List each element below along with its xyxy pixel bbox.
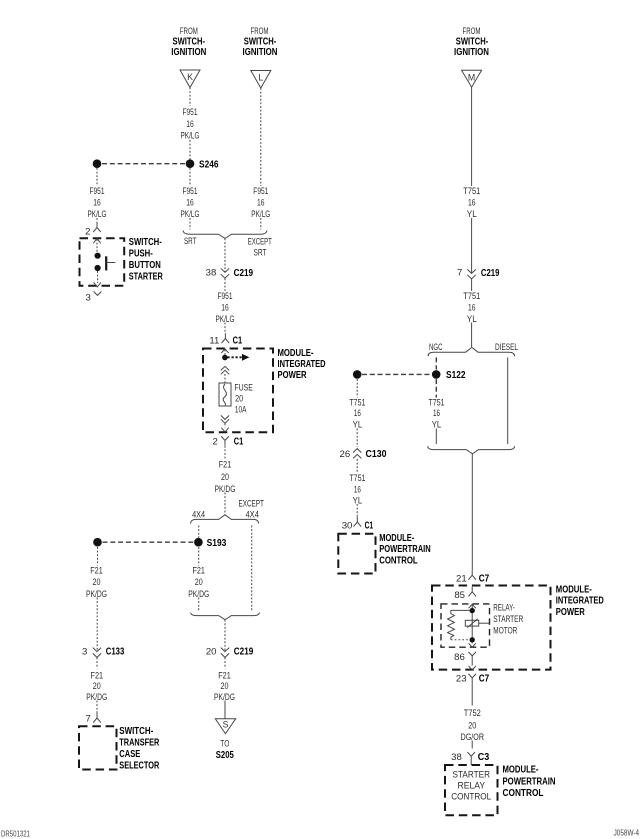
svg-text:POWER: POWER (556, 607, 585, 618)
wire from L (260, 88, 262, 186)
svg-text:2: 2 (212, 436, 217, 447)
node fuse feed (222, 355, 228, 361)
wire S122 branch horizontal (362, 373, 431, 375)
svg-text:85: 85 (454, 590, 465, 601)
wire below C7 pin 23 (471, 683, 473, 705)
wire NGC to merge (435, 429, 437, 445)
svg-text:F951: F951 (253, 186, 268, 197)
svg-text:SELECTOR: SELECTOR (119, 761, 159, 772)
wire to merge (198, 598, 200, 612)
svg-text:DIESEL: DIESEL (495, 342, 518, 353)
wire to NGC/DIESEL split (471, 323, 473, 348)
svg-text:16: 16 (468, 303, 476, 314)
wire S193 branch horizontal (103, 541, 194, 543)
relay contact diagonal (467, 619, 477, 628)
svg-text:23: 23 (456, 674, 467, 685)
svg-text:20: 20 (93, 577, 101, 588)
svg-text:BUTTON: BUTTON (129, 260, 161, 271)
svg-text:F951: F951 (183, 186, 198, 197)
svg-text:POWER: POWER (278, 370, 307, 381)
svg-text:11: 11 (209, 335, 219, 346)
svg-text:C1: C1 (233, 336, 243, 347)
fuse terminal chevrons upper (221, 366, 229, 370)
wire except-4x4 branch (251, 526, 253, 612)
wire relay top (471, 605, 473, 609)
wire S122 branch down (356, 379, 358, 398)
wire trunk to C219 (224, 238, 226, 272)
switch push-button starter box (80, 238, 125, 286)
wire S246 branch horizontal (102, 163, 185, 165)
svg-text:21: 21 (456, 574, 467, 585)
wire to C3 (471, 741, 473, 749)
node S246 branch dot (93, 159, 102, 168)
node S193 branch dot (93, 538, 102, 547)
svg-text:7: 7 (85, 713, 90, 724)
svg-text:F951: F951 (90, 186, 105, 197)
svg-text:16: 16 (468, 198, 476, 209)
svg-text:FROM: FROM (251, 26, 269, 37)
svg-text:RELAY-: RELAY- (493, 602, 515, 613)
svg-text:C3: C3 (478, 752, 490, 763)
wire switch lower (97, 271, 99, 283)
svg-text:3: 3 (85, 292, 90, 303)
wire entry to node (224, 350, 226, 356)
switch transfer case selector box (79, 726, 117, 769)
svg-text:20: 20 (235, 394, 243, 405)
svg-text:MODULE-: MODULE- (278, 348, 314, 359)
svg-text:C219: C219 (481, 268, 500, 279)
wire DIESEL branch (507, 357, 509, 444)
svg-text:J058W-4: J058W-4 (614, 829, 640, 838)
module-integrated power box (relay) (432, 586, 551, 670)
svg-text:T751: T751 (429, 397, 445, 408)
svg-text:20: 20 (468, 721, 476, 732)
svg-text:RELAY: RELAY (458, 780, 486, 791)
node relay coil bottom (470, 637, 475, 642)
arrow out of module at 86 (469, 666, 476, 670)
svg-text:S: S (223, 719, 229, 729)
wire to C1 pin 30 (356, 504, 358, 517)
wire below merge (224, 620, 226, 652)
wire switch upper (96, 239, 98, 253)
split brace NGC / DIESEL (428, 347, 515, 356)
svg-text:CASE: CASE (119, 749, 140, 760)
wire S193 branch down (97, 547, 99, 566)
wire from K (189, 88, 191, 107)
connector triangle K (180, 70, 200, 88)
svg-text:C7: C7 (479, 674, 490, 685)
svg-text:INTEGRATED: INTEGRATED (278, 359, 326, 370)
switch push actuator (105, 256, 107, 270)
svg-text:S246: S246 (199, 159, 219, 170)
svg-text:C1: C1 (234, 437, 244, 448)
svg-text:20: 20 (221, 472, 229, 483)
svg-text:CONTROL: CONTROL (451, 791, 492, 802)
branch arrow to other circuits (228, 356, 243, 358)
svg-text:20: 20 (93, 681, 101, 692)
wire coil top link (451, 609, 470, 611)
wire below C219 pin 20 (224, 658, 226, 669)
wire to C1 pin 11 (224, 323, 226, 334)
relay coil (starter motor relay) (448, 610, 455, 639)
svg-text:POWERTRAIN: POWERTRAIN (379, 544, 431, 555)
svg-text:38: 38 (206, 267, 217, 278)
svg-text:PK/LG: PK/LG (181, 130, 200, 141)
wire below S193 (198, 547, 200, 566)
wire contact to case (479, 622, 490, 624)
wire 4x4 branch to S193 (198, 526, 200, 539)
arrow into pin 2 inside box (93, 239, 100, 244)
connector pin 7 male (93, 713, 101, 723)
node S122 branch dot (353, 370, 362, 379)
svg-text:MOTOR: MOTOR (493, 625, 517, 636)
wire to box edge (471, 662, 473, 665)
relay inner box (441, 604, 490, 647)
svg-text:2: 2 (85, 226, 90, 237)
svg-text:F21: F21 (218, 671, 231, 682)
svg-text:S122: S122 (446, 370, 466, 381)
svg-text:CONTROL: CONTROL (503, 788, 544, 799)
svg-text:10A: 10A (235, 405, 247, 416)
wire below C1 (224, 446, 226, 460)
svg-text:86: 86 (454, 652, 465, 663)
svg-text:STARTER: STARTER (453, 769, 491, 780)
svg-text:16: 16 (93, 198, 101, 209)
svg-text:T751: T751 (349, 397, 365, 408)
svg-text:SWITCH-: SWITCH- (119, 726, 153, 737)
fuse F? 20 10A (219, 383, 231, 406)
svg-text:TO: TO (220, 738, 229, 749)
svg-text:IGNITION: IGNITION (454, 47, 489, 58)
switch contact upper (95, 253, 101, 259)
svg-text:26: 26 (340, 449, 351, 460)
svg-text:T752: T752 (464, 708, 481, 719)
svg-text:4X4: 4X4 (245, 509, 259, 520)
svg-text:DR501321: DR501321 (1, 829, 30, 838)
svg-text:T751: T751 (463, 186, 480, 197)
wire relay vertical (471, 613, 473, 637)
wire into PCM (470, 761, 472, 765)
svg-text:MODULE-: MODULE- (556, 585, 592, 596)
module-powertrain control box (right) (445, 765, 498, 815)
svg-text:16: 16 (354, 408, 361, 419)
wire below C133 (96, 658, 98, 669)
connector pin 3 female (94, 292, 102, 296)
svg-text:20: 20 (221, 681, 229, 692)
svg-text:F951: F951 (218, 291, 233, 302)
svg-text:F21: F21 (192, 566, 205, 577)
wire S246 branch down (96, 168, 98, 186)
connector triangle L (251, 71, 271, 89)
connector triangle M (462, 70, 482, 87)
svg-text:38: 38 (451, 752, 462, 763)
svg-text:IGNITION: IGNITION (243, 47, 278, 58)
svg-text:NGC: NGC (429, 342, 443, 353)
wire below C219 (224, 278, 226, 291)
svg-text:CONTROL: CONTROL (379, 555, 418, 566)
wire fuse out (224, 424, 226, 428)
arrow leaving box at pin 2 (221, 428, 228, 432)
svg-text:16: 16 (257, 198, 265, 209)
wire to S205 triangle (224, 701, 226, 719)
svg-text:SWITCH-: SWITCH- (129, 237, 162, 248)
module-powertrain control box (left) (338, 534, 375, 574)
svg-text:S193: S193 (207, 538, 227, 549)
svg-text:MODULE-: MODULE- (503, 765, 539, 776)
splice S246 (186, 159, 195, 168)
svg-text:S205: S205 (216, 750, 234, 761)
svg-text:C219: C219 (234, 268, 254, 279)
svg-text:STARTER: STARTER (493, 614, 523, 625)
splice S193 (194, 538, 203, 547)
svg-text:C130: C130 (366, 449, 387, 460)
svg-text:4X4: 4X4 (192, 509, 205, 520)
svg-text:7: 7 (457, 267, 462, 278)
wire K to SRT merge (189, 218, 191, 230)
svg-text:16: 16 (186, 119, 194, 130)
svg-text:C1: C1 (365, 521, 374, 532)
relay contact box (465, 620, 478, 626)
split brace 4X4 / EXCEPT 4X4 (191, 515, 259, 524)
merge brace 4X4 legs (191, 613, 260, 620)
merge brace NGC / DIESEL (428, 446, 515, 454)
svg-text:EXCEPT: EXCEPT (238, 498, 264, 509)
svg-text:INTEGRATED: INTEGRATED (556, 596, 604, 607)
node relay coil top (470, 608, 475, 613)
svg-text:FROM: FROM (463, 26, 481, 37)
wire L to merge (260, 218, 262, 230)
svg-text:K: K (187, 72, 193, 82)
svg-text:F21: F21 (90, 566, 103, 577)
svg-text:M: M (468, 73, 475, 83)
svg-text:SRT: SRT (184, 236, 197, 247)
arrow into relay at 85 (469, 604, 476, 608)
wire to pin 7 (96, 701, 98, 714)
svg-text:POWERTRAIN: POWERTRAIN (503, 777, 556, 788)
connector pin 2 male (93, 223, 101, 233)
svg-text:EXCEPT: EXCEPT (248, 236, 272, 247)
module-integrated power box (203, 349, 273, 433)
wire NGC branch (435, 357, 437, 369)
wire to C133 (96, 598, 98, 652)
arrow out of relay at 86 (469, 643, 476, 647)
svg-text:16: 16 (186, 198, 194, 209)
wire from M (471, 87, 473, 186)
fuse terminal chevrons lower (221, 415, 229, 419)
svg-text:16: 16 (433, 408, 440, 419)
wire to pin 2 (96, 218, 98, 226)
svg-text:16: 16 (221, 303, 229, 314)
wire below C130 (356, 459, 358, 473)
connector triangle S to S205 (215, 719, 235, 734)
wire to S246 (189, 140, 191, 160)
svg-text:IGNITION: IGNITION (171, 47, 206, 58)
connector pin 85 male (468, 587, 476, 597)
svg-text:30: 30 (342, 521, 353, 532)
wire below coil (471, 642, 473, 643)
wire below S246 (189, 168, 191, 186)
svg-text:20: 20 (195, 577, 203, 588)
svg-text:MODULE-: MODULE- (379, 533, 414, 544)
wire M to C219 (471, 218, 473, 273)
switch contact lower (95, 265, 101, 271)
svg-text:C7: C7 (479, 574, 490, 585)
connector pin 86 female (468, 652, 476, 663)
svg-text:L: L (258, 73, 263, 83)
wire below C219 pin 7 (471, 279, 473, 291)
svg-text:PK/DG: PK/DG (86, 589, 107, 600)
svg-text:FUSE: FUSE (234, 382, 253, 393)
wire NGC below S122 (435, 379, 437, 398)
splice S122 (432, 370, 441, 379)
svg-text:F21: F21 (91, 671, 104, 682)
wire merged trunk to C7 (471, 454, 473, 570)
svg-text:C219: C219 (234, 647, 254, 658)
svg-text:F21: F21 (219, 460, 232, 471)
merge brace SRT / EXCEPT SRT (183, 230, 267, 238)
wire to C130 (356, 429, 358, 448)
svg-text:TRANSFER: TRANSFER (119, 738, 159, 749)
svg-text:C133: C133 (106, 647, 125, 658)
arrow out of pin 3 inside box (94, 282, 101, 287)
svg-text:F951: F951 (183, 107, 198, 118)
svg-text:SRT: SRT (254, 247, 267, 258)
svg-text:T751: T751 (463, 291, 480, 302)
svg-text:FROM: FROM (180, 26, 198, 37)
svg-text:PUSH-: PUSH- (129, 249, 153, 260)
svg-text:16: 16 (354, 485, 361, 496)
svg-text:STARTER: STARTER (129, 272, 163, 283)
wire to 4X4 split (224, 493, 226, 515)
wire coil bottom link (451, 639, 470, 641)
svg-text:20: 20 (206, 646, 217, 657)
svg-text:T751: T751 (349, 473, 365, 484)
svg-text:3: 3 (82, 646, 87, 657)
arrow entering box at pin 11 (221, 349, 228, 353)
